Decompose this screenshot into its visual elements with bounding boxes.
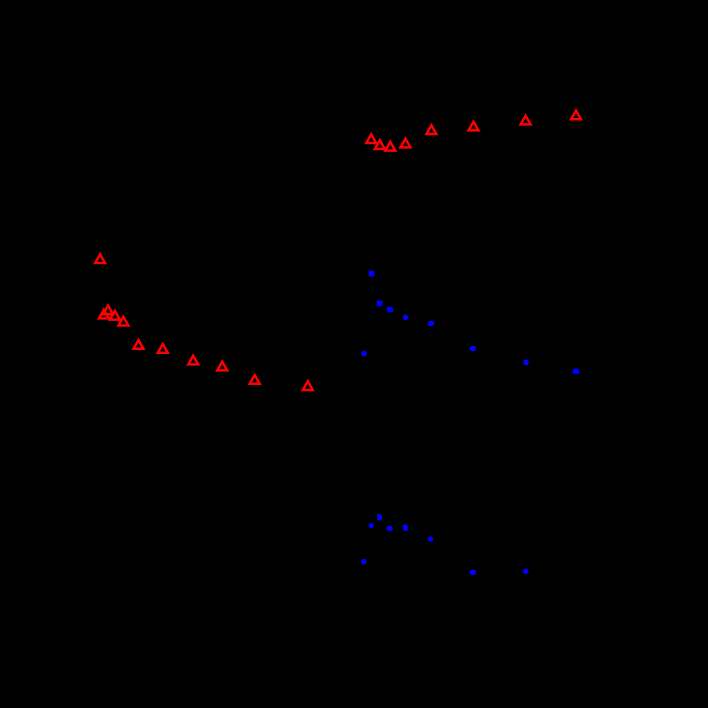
blue square point S2	[377, 301, 383, 307]
blue dot point D1	[387, 307, 392, 312]
red triangle point T2	[103, 306, 113, 315]
red triangle point T14	[385, 142, 395, 151]
blue dot point D20	[471, 570, 476, 575]
blue dot point D14	[387, 526, 392, 531]
red triangle point T15	[400, 139, 410, 148]
blue dot point D13	[369, 523, 374, 528]
blue dot point D2	[388, 307, 393, 312]
red triangle point T4	[110, 311, 120, 320]
red triangle point T3	[99, 310, 109, 319]
red triangle point T17	[469, 122, 479, 131]
blue dot point D21	[523, 569, 529, 575]
red triangle point T13	[375, 140, 385, 149]
blue dot point D12	[377, 514, 381, 518]
blue dot point D3	[403, 315, 409, 321]
blue dot point D8	[471, 346, 476, 351]
red triangle point T10	[250, 375, 260, 384]
red triangle point T19	[571, 111, 581, 120]
red triangle point T8	[188, 356, 198, 365]
blue dot point D7	[470, 346, 475, 351]
blue square point S3	[403, 526, 408, 531]
red triangle point T18	[521, 116, 531, 125]
blue dot point D4	[428, 321, 433, 326]
red triangle point T1	[95, 254, 105, 263]
red triangle point T9	[217, 362, 227, 371]
blue dot point D18	[361, 559, 367, 565]
blue dot point D6	[361, 351, 367, 357]
blue square point S1	[369, 271, 375, 277]
blue dot point D17	[428, 536, 433, 541]
blue dot point D11	[574, 369, 580, 375]
red triangle point T5	[118, 317, 128, 326]
blue dot point D5	[429, 321, 434, 326]
red triangle point T7	[158, 344, 168, 353]
blue dot point D9	[523, 360, 529, 366]
red triangle point T6	[134, 340, 144, 349]
red triangle point T11	[303, 381, 313, 390]
blue dot point D15	[388, 526, 393, 531]
red triangle point T12	[366, 134, 376, 143]
blue dot point D19	[470, 570, 475, 575]
blue dot point D10	[573, 369, 579, 375]
blue dot point D16	[403, 524, 407, 528]
red triangle point T16	[426, 125, 436, 134]
blue square point S4	[377, 516, 382, 521]
